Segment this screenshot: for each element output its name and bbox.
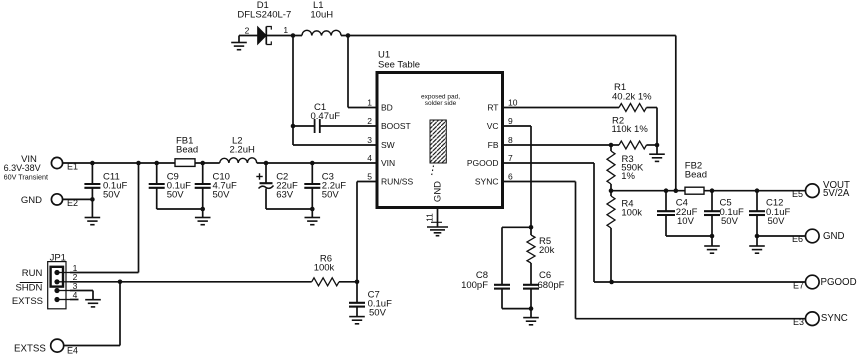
svg-text:PGOOD: PGOOD <box>821 277 857 288</box>
svg-text:E6: E6 <box>792 234 803 244</box>
svg-text:3: 3 <box>367 135 372 145</box>
svg-text:E4: E4 <box>67 346 78 356</box>
svg-text:Bead: Bead <box>176 145 198 156</box>
svg-text:50V: 50V <box>322 189 340 200</box>
svg-text:63V: 63V <box>276 189 294 200</box>
svg-text:100k: 100k <box>314 263 335 274</box>
svg-text:100pF: 100pF <box>461 280 488 291</box>
svg-text:SHDN: SHDN <box>15 283 42 294</box>
svg-text:RUN/SS: RUN/SS <box>381 177 413 187</box>
svg-text:SW: SW <box>381 140 395 150</box>
svg-text:BD: BD <box>381 103 393 113</box>
svg-text:E2: E2 <box>67 198 78 208</box>
svg-text:RUN: RUN <box>22 268 43 279</box>
svg-text:Bead: Bead <box>685 170 707 181</box>
svg-text:E5: E5 <box>792 189 803 199</box>
svg-text:10V: 10V <box>677 216 695 227</box>
svg-text:50V: 50V <box>768 216 786 227</box>
svg-text:1: 1 <box>367 98 372 108</box>
svg-text:50V: 50V <box>167 189 185 200</box>
svg-text:6.3V-38V: 6.3V-38V <box>4 163 41 173</box>
svg-text:5: 5 <box>367 172 372 182</box>
svg-text:60V Transient: 60V Transient <box>4 172 48 181</box>
svg-text:5V/2A: 5V/2A <box>823 188 850 199</box>
svg-text:GND: GND <box>21 195 42 206</box>
svg-text:VIN: VIN <box>381 158 395 168</box>
svg-text:6: 6 <box>508 172 513 182</box>
svg-text:11: 11 <box>425 213 435 222</box>
svg-text:SYNC: SYNC <box>475 177 499 187</box>
svg-text:10uH: 10uH <box>310 10 333 21</box>
svg-text:GND: GND <box>433 181 444 202</box>
svg-text:EXTSS: EXTSS <box>14 343 46 354</box>
svg-text:DFLS240L-7: DFLS240L-7 <box>237 10 291 21</box>
svg-text:PGOOD: PGOOD <box>467 158 499 168</box>
svg-text:50V: 50V <box>721 216 739 227</box>
svg-text:2: 2 <box>245 26 250 36</box>
svg-text:VC: VC <box>487 121 499 131</box>
svg-text:1%: 1% <box>621 171 635 182</box>
svg-text:10: 10 <box>508 98 518 108</box>
svg-text:7: 7 <box>508 153 513 163</box>
svg-text:9: 9 <box>508 116 513 126</box>
svg-text:4: 4 <box>73 290 78 300</box>
svg-text:1: 1 <box>283 25 288 35</box>
svg-text:50V: 50V <box>213 189 231 200</box>
svg-text:2: 2 <box>367 116 372 126</box>
svg-text:4: 4 <box>367 153 372 163</box>
svg-text:E7: E7 <box>793 280 804 290</box>
svg-text:E1: E1 <box>67 162 78 172</box>
svg-text:JP1: JP1 <box>50 252 66 263</box>
svg-text:BOOST: BOOST <box>381 121 411 131</box>
svg-text:40.2k 1%: 40.2k 1% <box>612 92 652 103</box>
svg-text:EXTSS: EXTSS <box>12 296 43 307</box>
svg-text:8: 8 <box>508 135 513 145</box>
svg-text:50V: 50V <box>369 308 387 319</box>
svg-text:20k: 20k <box>539 245 555 256</box>
svg-text:100k: 100k <box>621 208 642 219</box>
svg-text:50V: 50V <box>103 189 121 200</box>
svg-text:SYNC: SYNC <box>821 313 848 324</box>
svg-text:GND: GND <box>823 231 845 242</box>
svg-text:2.2uH: 2.2uH <box>230 145 255 156</box>
svg-text:See Table: See Table <box>378 60 420 71</box>
svg-text:FB: FB <box>488 140 499 150</box>
svg-text:0.47uF: 0.47uF <box>311 111 341 122</box>
svg-text:RT: RT <box>487 103 498 113</box>
svg-text:E3: E3 <box>793 317 804 327</box>
svg-text:solder side: solder side <box>425 100 457 107</box>
svg-text:680pF: 680pF <box>538 280 565 291</box>
svg-text:110k 1%: 110k 1% <box>612 124 649 135</box>
